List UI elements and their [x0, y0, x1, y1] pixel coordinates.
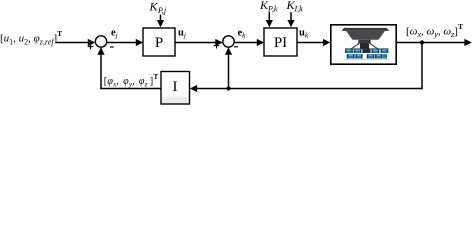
wire K_P,k arrow into PI top: [268, 12, 270, 22]
summing junction S2: [223, 36, 234, 47]
robot photo: strut left: [350, 44, 360, 51]
minus sign at S1: [110, 46, 114, 48]
wire junction up to S2: [228, 51, 230, 89]
block robot (plant): [331, 25, 396, 64]
svg-text:PI: PI: [274, 35, 287, 51]
wire K_I,k arrow into PI top: [290, 12, 292, 22]
robot photo: center body: [360, 43, 369, 48]
robot photo: table top plate: [342, 28, 390, 31]
wire PI to robot block: [297, 42, 324, 44]
wire S2 to PI: [234, 42, 258, 44]
arrowhead into PI: [257, 39, 264, 46]
arrowhead into I block: [190, 85, 197, 92]
svg-text:K: K: [149, 0, 159, 13]
robot photo: wheel row bottom: [347, 54, 387, 58]
wire input to summing junction S1: [56, 42, 89, 44]
wire P to summing junction S2: [175, 42, 217, 44]
wire robot block to output: [397, 42, 466, 44]
block PI: [264, 28, 297, 56]
plus sign at S2: [214, 43, 220, 49]
plus sign at S1: [88, 44, 94, 50]
arrowhead output: [464, 39, 471, 46]
wire I block to left: [100, 88, 161, 90]
arrowhead into S1: [88, 39, 95, 46]
minus sign at S2: [234, 46, 238, 48]
robot photo: strut right: [370, 44, 380, 51]
block P: [143, 28, 175, 56]
block I: [161, 72, 190, 105]
robot photo: pedestal: [358, 40, 371, 44]
svg-text:I: I: [173, 79, 178, 95]
wire K_P,j arrow into P top: [160, 15, 162, 23]
junction dot below S2: [226, 86, 230, 90]
arrowhead into P: [136, 39, 143, 46]
robot photo: plate front face: [346, 31, 385, 40]
arrowhead into S2: [215, 39, 222, 46]
svg-text:P: P: [155, 35, 163, 51]
summing junction S1: [95, 36, 106, 47]
robot photo: ground shadow: [344, 59, 390, 60]
wire feedback right vertical: [421, 43, 423, 90]
robot photo: wheel row top: [345, 48, 389, 53]
gray band inside I block: [162, 97, 189, 104]
arrowhead up into S1: [97, 47, 104, 54]
svg-text:I,k: I,k: [294, 5, 304, 14]
arrowhead up into S2: [225, 47, 232, 54]
svg-text:P,j: P,j: [157, 6, 167, 15]
junction dot on output wire: [420, 40, 424, 44]
wire S1 to P: [107, 42, 137, 44]
wire feedback left vertical up to S1: [100, 51, 102, 89]
wire feedback bottom horizontal: [196, 88, 423, 90]
arrowhead into robot block: [323, 39, 330, 46]
